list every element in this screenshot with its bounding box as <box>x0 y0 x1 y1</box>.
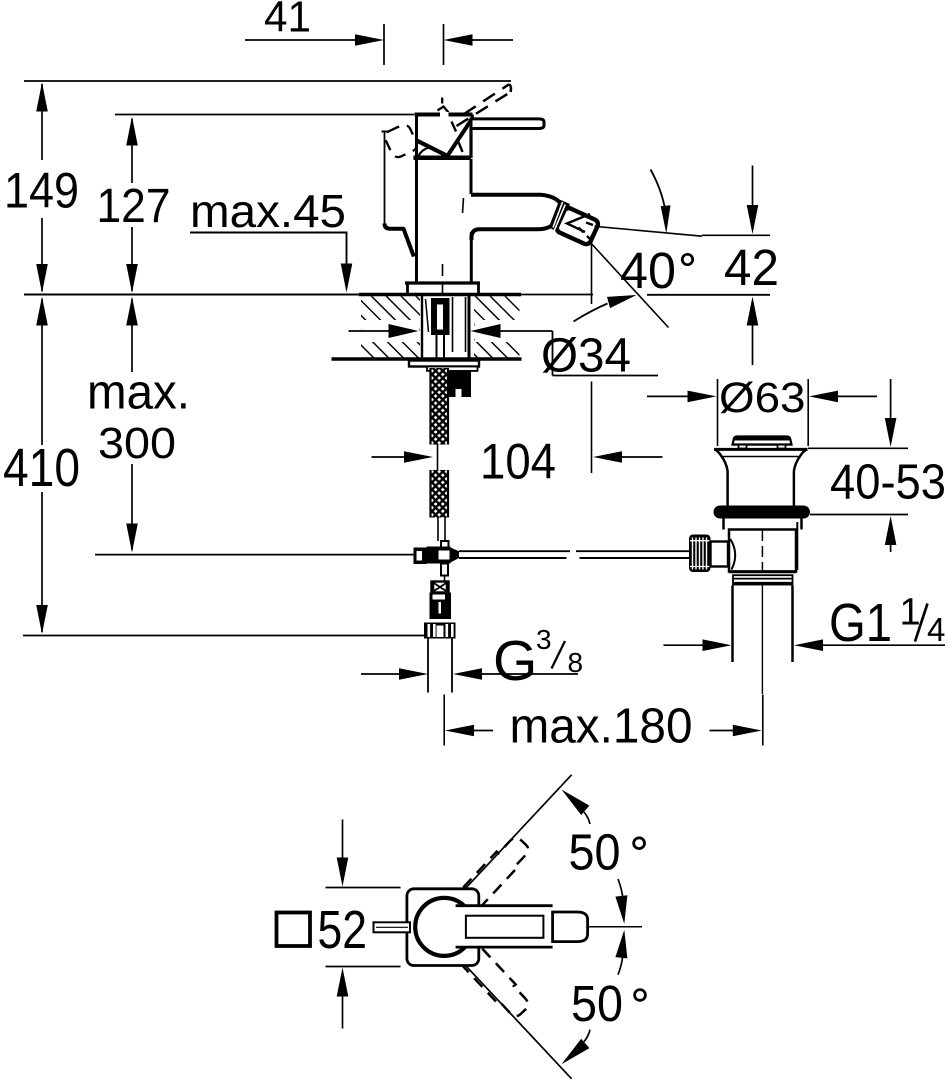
faucet head top edge <box>415 113 473 117</box>
tee top stem <box>441 541 449 548</box>
ball joint wedge <box>546 198 570 233</box>
dashed lever lowered position <box>383 123 419 160</box>
50deg lower arc arrow at centerline <box>618 957 623 975</box>
diameter 63 right arrow <box>809 391 838 403</box>
dimension 127 line upper <box>131 119 133 183</box>
hose core line <box>437 445 439 471</box>
max.45 leader with arrow <box>346 233 348 269</box>
40-53 reference line bottom <box>810 514 908 516</box>
dimension max.300 line upper <box>131 299 133 372</box>
G1 1/4 right arrow <box>794 639 823 651</box>
spout outline <box>471 195 560 240</box>
deck hatch left block <box>361 296 420 358</box>
diameter 34 left arrow <box>349 330 392 332</box>
svg-text:3: 3 <box>536 624 552 655</box>
dimension 104 extension line <box>591 235 593 304</box>
reference line top of handle (149) <box>24 80 511 82</box>
deck top line thick <box>359 293 521 297</box>
deck top line left <box>24 294 361 296</box>
dimension 41 line right with arrow <box>472 39 514 41</box>
svg-text:300: 300 <box>98 419 176 468</box>
dimension 410 line upper <box>41 299 43 445</box>
dimension max.300 line lower <box>131 464 133 550</box>
check valve flange line <box>430 617 452 619</box>
shank right wall <box>468 296 471 359</box>
deck top line right <box>521 294 593 296</box>
plan dashed lever up 50deg <box>454 833 533 915</box>
mounting nut <box>449 371 472 398</box>
plan centerline right <box>588 926 642 928</box>
dashed lever raised position <box>464 84 509 114</box>
svg-text:52: 52 <box>318 900 368 960</box>
plan lever inner <box>466 916 544 938</box>
faucet head right edge <box>469 128 472 158</box>
drain tailpipe <box>731 586 734 663</box>
dimension 42 line upper <box>752 166 754 208</box>
reference line bottom of supply hose (410) <box>23 635 424 637</box>
40 degree arc upper <box>651 170 666 213</box>
svg-text:G1: G1 <box>829 593 892 653</box>
pull rod guide elbow <box>385 224 414 257</box>
dimension 52 upper <box>342 820 344 860</box>
dimension 41 extension line right <box>443 24 445 65</box>
svg-text:Ø34: Ø34 <box>541 330 631 383</box>
faucet head bottom line <box>414 156 472 161</box>
drain knob housing <box>711 542 729 567</box>
dimension 410 line lower <box>41 492 43 632</box>
shank left wall <box>421 296 423 359</box>
faucet head left edge <box>415 113 418 142</box>
dimension 149 line lower <box>41 218 43 291</box>
diameter 34 right arrow <box>499 330 553 332</box>
plan square body <box>407 889 479 966</box>
base plinth sides <box>406 285 409 295</box>
drain centerline <box>761 530 763 570</box>
svg-text:4: 4 <box>927 611 945 648</box>
drain plug cap <box>733 437 792 445</box>
svg-text:42: 42 <box>724 239 779 296</box>
max.180 extension right <box>762 695 764 746</box>
svg-text:8: 8 <box>568 647 584 678</box>
pop-up pull rod <box>384 131 386 226</box>
dimension 41 extension line left <box>383 24 385 65</box>
lever tilted bottom-left edge <box>416 140 447 156</box>
shank right inner line <box>465 297 467 352</box>
50deg upper arc arrow at ray <box>562 790 590 816</box>
50deg upper arc arrow at centerline <box>618 879 623 897</box>
base plinth top line <box>405 281 480 284</box>
lever grip bar <box>471 119 544 129</box>
drain collar <box>733 575 793 584</box>
G1 1/4 left arrow <box>664 644 705 646</box>
check valve cross block <box>432 582 449 593</box>
svg-text:max.180: max.180 <box>510 700 693 754</box>
faucet body right edge upper <box>470 159 473 194</box>
hose tail lines <box>437 518 439 542</box>
shank core lower lines <box>436 334 438 359</box>
drain ball socket arc <box>730 539 735 570</box>
dimension 41 line left with arrow <box>245 39 357 41</box>
dimension 42 line lower <box>752 324 754 365</box>
drain o-ring band <box>714 506 811 519</box>
washer plate 2 <box>427 367 478 371</box>
drain funnel inner line <box>723 456 799 458</box>
diameter 63 left arrow <box>647 395 690 397</box>
dimension 149 line upper <box>41 84 43 160</box>
shank thread line <box>426 299 429 332</box>
drain plug feet <box>739 445 747 449</box>
plan lever grip <box>553 912 588 942</box>
pop-up rod right segment <box>459 550 570 552</box>
dimension 127 line lower <box>131 227 133 291</box>
drain flange top <box>714 448 808 451</box>
spout seam line <box>463 198 464 213</box>
svg-text:41: 41 <box>264 0 311 42</box>
dimension 104 right arrow <box>593 451 622 463</box>
max.180 right arrow <box>710 730 734 732</box>
drain lower body <box>729 530 796 572</box>
faucet centerline dashed <box>442 264 444 295</box>
svg-text:410: 410 <box>3 438 80 498</box>
max.180 left arrow <box>445 725 474 737</box>
tee right wedge <box>451 548 460 563</box>
40 degree flow line <box>589 241 669 328</box>
svg-text:40: 40 <box>620 242 676 299</box>
aerator axis line <box>595 226 703 236</box>
reference line top of body (127) <box>115 114 414 116</box>
drain funnel right <box>794 449 807 506</box>
svg-text:50: 50 <box>571 975 623 1032</box>
40-53 reference line top <box>808 447 908 449</box>
drain body bottom line <box>729 570 796 573</box>
plan lever outer <box>456 906 553 947</box>
hatch gap for arrows <box>362 320 420 342</box>
G3/8 tail lines <box>427 639 429 693</box>
plan square symbol <box>277 913 311 947</box>
tee bottom stem <box>441 564 448 576</box>
G3/8 left arrow <box>361 673 400 675</box>
dimension 52 lower <box>337 968 349 997</box>
faucet body left edge <box>415 115 418 284</box>
40 degree arc lower <box>574 304 608 322</box>
faucet body right edge lower <box>470 232 473 283</box>
diameter 63 extension lines <box>717 379 719 446</box>
pop-up rod left segment <box>95 554 414 556</box>
svg-text:127: 127 <box>97 180 171 233</box>
check valve nut <box>424 623 456 639</box>
diameter 34 leader <box>552 331 554 376</box>
hose braid upper <box>431 368 449 445</box>
svg-text:1: 1 <box>900 592 921 634</box>
50deg lower arc arrow at ray <box>562 1039 590 1065</box>
dimension 104 left arrow <box>372 456 406 458</box>
svg-text:Ø63: Ø63 <box>719 374 806 422</box>
plan pull rod tab <box>374 922 411 932</box>
hose braid lower <box>431 470 449 518</box>
tee body <box>427 547 451 564</box>
dimension 52 reference lines <box>326 887 401 889</box>
svg-text:max.45: max.45 <box>190 185 346 237</box>
max.180 extension left <box>443 695 445 746</box>
check valve body <box>430 593 452 620</box>
washer plate <box>409 361 479 367</box>
lever pivot arc <box>418 148 430 159</box>
deck hatch right block <box>474 296 520 358</box>
svg-text:50: 50 <box>569 824 621 881</box>
40-53 dimension upper <box>890 379 892 420</box>
svg-text:max.: max. <box>87 366 190 420</box>
aerator mousseur <box>555 206 599 245</box>
plan ray lower <box>464 964 572 1079</box>
plan dashed lever down 50deg <box>454 938 533 1020</box>
lever bottom slant <box>447 120 472 157</box>
plan cartridge circle <box>415 898 473 956</box>
plan ray upper <box>464 775 572 890</box>
shank core dark block <box>431 298 450 334</box>
drain knurled knob <box>689 535 711 573</box>
svg-text:149: 149 <box>4 163 79 219</box>
drain funnel left <box>715 449 728 506</box>
tee left collar <box>414 548 427 565</box>
max.45 underline <box>190 232 347 234</box>
drain neck <box>722 519 725 530</box>
svg-text:G: G <box>493 629 537 693</box>
G3/8 right arrow <box>453 668 482 680</box>
svg-text:104: 104 <box>480 434 556 490</box>
40-53 dimension lower <box>885 516 897 545</box>
deck bottom line <box>332 357 522 360</box>
svg-text:40-53: 40-53 <box>830 456 946 510</box>
